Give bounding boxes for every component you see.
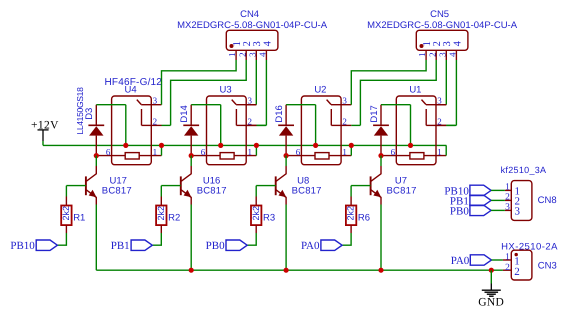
resistor R3 top stub <box>255 197 257 206</box>
transistor U17 collector <box>86 166 96 181</box>
junction collector node <box>189 153 194 158</box>
wire relay U4 pin 2 <box>162 124 171 126</box>
svg-text:3: 3 <box>342 95 347 105</box>
relay U4 body <box>112 96 152 165</box>
svg-text:2k2: 2k2 <box>346 206 356 221</box>
svg-text:2: 2 <box>505 263 510 273</box>
port PB10 at CN8 <box>470 185 491 195</box>
svg-text:3: 3 <box>153 95 158 105</box>
relay U1 switch lever pin 3 <box>422 100 426 105</box>
wire to ground <box>490 270 492 283</box>
connector CN5 pin 1 stub <box>425 50 427 60</box>
svg-text:PA0: PA0 <box>301 240 320 252</box>
relay U2 body <box>301 96 341 165</box>
resistor R6 body <box>346 206 356 226</box>
wire CN4 pin2 to relay pin2 <box>171 60 247 125</box>
svg-text:4: 4 <box>448 52 458 57</box>
wire base <box>66 185 86 187</box>
diode D17 cathode bar <box>373 124 389 126</box>
relay U1 body <box>396 96 436 165</box>
diode D17 cathode wire <box>380 105 382 126</box>
wire coil pin1 riser to +12V rail <box>255 145 257 155</box>
svg-text:PB1: PB1 <box>111 240 130 252</box>
wire CN5 pin1 to relay pin3 <box>351 60 426 105</box>
relay U2 pin 2 stub <box>341 124 351 126</box>
connector CN3 pin 2 stub <box>503 269 511 271</box>
wire collector to node <box>380 156 382 166</box>
junction collector node <box>378 153 383 158</box>
wire PB1 to CN8 pin 2 <box>491 199 505 201</box>
diode D16 body <box>279 126 293 135</box>
svg-text:6: 6 <box>201 147 206 157</box>
resistor R2 body <box>156 206 166 226</box>
connector CN4 body <box>226 30 278 50</box>
svg-text:3: 3 <box>247 52 257 57</box>
junction emitter on ground rail <box>189 268 194 273</box>
svg-text:U1: U1 <box>409 85 421 96</box>
resistor R2 bottom stub <box>160 225 162 233</box>
transistor U16 collector <box>181 166 191 181</box>
junction drive riser on +12V rail <box>123 143 128 148</box>
svg-text:D3: D3 <box>84 108 95 120</box>
wire emitter to ground rail <box>95 205 97 271</box>
wire relay pin3 stub extension <box>246 104 256 106</box>
wire relay U1 pin 2 <box>446 124 455 126</box>
wire resistor to input port <box>57 233 66 245</box>
svg-text:2k2: 2k2 <box>156 206 166 221</box>
connector CN5 pin 4 stub <box>455 50 457 60</box>
port PB1 <box>131 240 152 250</box>
diode D17 body <box>374 126 388 135</box>
wire diode cathode to drive riser <box>286 104 316 106</box>
wire collector to node <box>190 156 192 166</box>
diode D14 cathode wire <box>190 105 192 126</box>
svg-text:CN5: CN5 <box>430 9 449 20</box>
wire drive riser to +12V rail <box>315 105 317 146</box>
svg-text:BC817: BC817 <box>197 185 227 196</box>
svg-text:3: 3 <box>515 206 521 218</box>
svg-text:1: 1 <box>342 147 347 157</box>
relay U3 pin 3 stub <box>246 104 256 106</box>
connector CN3 pin 1 stub <box>503 259 511 261</box>
svg-text:6: 6 <box>296 147 301 157</box>
relay U3 switch lever pin 3 <box>232 100 236 105</box>
wire CN4 pin3 to relay pin3 <box>255 60 257 105</box>
connector CN8 pin 2 stub <box>505 199 511 201</box>
svg-text:R2: R2 <box>168 213 180 224</box>
junction drive riser on +12V rail <box>408 143 413 148</box>
transistor U7 base bar <box>370 176 372 195</box>
wire coil pin1 riser to +12V rail <box>350 145 352 155</box>
diode D3 anode wire <box>95 136 97 156</box>
connector CN5 pin 3 stub <box>445 50 447 60</box>
resistor R2 top stub <box>160 197 162 206</box>
transistor U16 emitter <box>181 190 191 205</box>
diode D3 cathode bar <box>88 124 104 126</box>
svg-text:2k2: 2k2 <box>251 206 261 221</box>
diode D16 anode wire <box>285 136 287 156</box>
wire base <box>256 185 276 187</box>
relay U2 pole pin 2 <box>330 109 332 125</box>
wire relay pin2 stub extension <box>436 124 446 126</box>
relay U3 pole pin 2 <box>235 109 237 125</box>
relay U4 pin 2 stub <box>151 124 161 126</box>
wire diode cathode to drive riser <box>191 104 221 106</box>
junction collector node <box>94 153 99 158</box>
wire relay pin2 stub extension <box>246 124 256 126</box>
svg-text:MX2EDGRC-5.08-GN01-04P-CU-A: MX2EDGRC-5.08-GN01-04P-CU-A <box>367 20 518 31</box>
port PB10 <box>36 240 57 250</box>
svg-text:D17: D17 <box>369 105 380 122</box>
resistor R1 top stub <box>65 197 67 206</box>
resistor R1 bottom stub <box>65 225 67 233</box>
svg-text:CN8: CN8 <box>538 195 557 206</box>
relay U4 pin 6 wire <box>96 155 125 157</box>
wire CN5 pin4 to relay pin2 <box>455 60 457 125</box>
connector CN4 pin 4 stub <box>265 50 267 60</box>
wire diode cathode to drive riser <box>96 104 126 106</box>
svg-text:3: 3 <box>505 203 510 213</box>
svg-text:PA0: PA0 <box>451 255 470 267</box>
connector CN4 pin 2 stub <box>245 50 247 60</box>
junction drive riser on +12V rail <box>218 143 223 148</box>
wire coil pin1 riser to +12V rail <box>445 145 447 155</box>
power +12V symbol <box>38 129 49 131</box>
resistor R6 bottom stub <box>350 225 352 233</box>
junction collector node <box>284 153 289 158</box>
svg-text:D14: D14 <box>179 105 190 122</box>
wire emitter to ground rail <box>380 205 382 271</box>
svg-text:PB10: PB10 <box>10 240 35 252</box>
relay U1 coil <box>410 153 424 159</box>
svg-text:1: 1 <box>437 147 442 157</box>
relay U2 switch lever pin 3 <box>327 100 331 105</box>
transistor U8 emitter arrow <box>279 190 287 198</box>
connector CN8 pin 3 stub <box>505 209 511 211</box>
svg-text:BC817: BC817 <box>102 185 132 196</box>
svg-text:PB0: PB0 <box>206 240 225 252</box>
relay U3 pin 6 wire <box>191 155 220 157</box>
wire drive riser to +12V rail <box>410 105 412 146</box>
port PA0 at CN3 <box>470 255 491 265</box>
junction coil riser on +12V rail <box>254 143 259 148</box>
relay U3 pin 1 wire <box>234 155 256 157</box>
wire emitter ground rail <box>96 269 503 271</box>
relay U3 pin 2 stub <box>246 124 256 126</box>
diode D16 cathode bar <box>278 124 294 126</box>
relay U1 pin 6 wire <box>381 155 410 157</box>
junction coil riser on +12V rail <box>159 143 164 148</box>
wire +12V rail <box>43 144 446 146</box>
svg-text:2: 2 <box>237 52 247 57</box>
wire emitter to ground rail <box>190 205 192 271</box>
svg-text:U3: U3 <box>220 85 232 96</box>
relay U4 coil <box>125 153 139 159</box>
connector CN5 pin 2 stub <box>435 50 437 60</box>
svg-text:3: 3 <box>437 52 447 57</box>
relay U1 pin 3 stub <box>436 104 446 106</box>
wire CN5 pin2 to relay pin2 <box>360 60 436 125</box>
transistor U17 base bar <box>85 176 87 195</box>
connector CN5 body <box>416 30 468 50</box>
svg-text:BC817: BC817 <box>292 185 322 196</box>
wire base <box>351 185 371 187</box>
junction coil riser on +12V rail <box>349 143 354 148</box>
connector CN8 body <box>511 181 532 221</box>
wire resistor to input port <box>152 233 161 245</box>
wire emitter to ground rail <box>285 205 287 271</box>
relay U1 pole pin 2 <box>425 109 427 125</box>
svg-text:PB0: PB0 <box>450 205 469 217</box>
svg-text:1: 1 <box>248 147 253 157</box>
svg-text:6: 6 <box>391 147 396 157</box>
transistor U7 emitter arrow <box>373 190 381 198</box>
diode D3 body <box>89 126 103 135</box>
transistor U16 emitter arrow <box>184 190 192 198</box>
resistor R1 body <box>61 206 71 226</box>
port PA0 <box>321 240 342 250</box>
connector CN5 pin 1 marker <box>420 44 424 48</box>
diode D3 cathode wire <box>95 105 97 126</box>
svg-text:3: 3 <box>437 95 442 105</box>
resistor R3 body <box>251 206 261 226</box>
svg-text:CN3: CN3 <box>538 260 557 271</box>
svg-text:GND: GND <box>478 296 504 308</box>
connector CN3 body <box>511 250 532 280</box>
svg-text:4: 4 <box>258 52 268 57</box>
wire resistor to input port <box>247 233 256 245</box>
port PB0 at CN8 <box>470 205 491 215</box>
wire CN4 pin1 to relay pin3 <box>162 60 237 105</box>
wire drive riser to +12V rail <box>125 105 127 146</box>
svg-text:2k2: 2k2 <box>61 206 71 221</box>
wire collector to node <box>95 156 97 166</box>
transistor U17 emitter arrow <box>89 190 97 198</box>
wire relay U2 pin 2 <box>351 124 360 126</box>
ground symbol <box>482 289 501 291</box>
svg-text:4: 4 <box>262 40 273 46</box>
transistor U7 collector <box>371 166 381 181</box>
wire coil pin1 riser to +12V rail <box>161 145 163 155</box>
svg-text:BC817: BC817 <box>387 185 417 196</box>
svg-text:R1: R1 <box>73 213 85 224</box>
wire drive riser to +12V rail <box>220 105 222 146</box>
wire CN5 pin3 to relay pin3 <box>445 60 447 105</box>
relay U3 body <box>207 96 247 165</box>
wire diode cathode to drive riser <box>381 104 411 106</box>
resistor R6 top stub <box>350 197 352 206</box>
svg-text:R3: R3 <box>263 213 275 224</box>
transistor U8 base bar <box>275 176 277 195</box>
relay U2 coil <box>315 153 329 159</box>
wire CN4 pin4 to relay pin2 <box>265 60 267 125</box>
wire relay U3 pin 2 <box>256 124 265 126</box>
svg-text:1: 1 <box>153 147 158 157</box>
relay U3 coil <box>220 153 234 159</box>
relay U2 pin 3 stub <box>341 104 351 106</box>
svg-text:1: 1 <box>417 52 427 57</box>
svg-text:U2: U2 <box>314 85 326 96</box>
svg-text:MX2EDGRC-5.08-GN01-04P-CU-A: MX2EDGRC-5.08-GN01-04P-CU-A <box>177 20 328 31</box>
wire base <box>161 185 181 187</box>
wire PA0 to CN3 pin 1 <box>492 259 503 261</box>
svg-text:1: 1 <box>227 52 237 57</box>
diode D16 cathode wire <box>285 105 287 126</box>
junction emitter on ground rail <box>378 268 383 273</box>
junction drive riser on +12V rail <box>313 143 318 148</box>
svg-text:D16: D16 <box>274 105 285 122</box>
relay U1 pin 2 stub <box>436 124 446 126</box>
svg-text:3: 3 <box>248 95 253 105</box>
svg-text:U4: U4 <box>125 85 137 96</box>
svg-text:R6: R6 <box>358 213 370 224</box>
relay U4 pole pin 2 <box>141 109 143 125</box>
svg-text:1: 1 <box>505 253 510 263</box>
svg-text:2: 2 <box>514 266 520 278</box>
svg-text:CN4: CN4 <box>240 9 259 20</box>
diode D17 anode wire <box>380 136 382 156</box>
svg-text:6: 6 <box>106 147 111 157</box>
port PB0 <box>226 240 247 250</box>
junction emitter on ground rail <box>284 268 289 273</box>
junction ground drop on rail <box>489 268 494 273</box>
wire collector to node <box>285 156 287 166</box>
port PB1 at CN8 <box>470 195 491 205</box>
diode D14 cathode bar <box>183 124 199 126</box>
svg-text:kf2510_3A: kf2510_3A <box>501 165 547 175</box>
wire PB10 to CN8 pin 1 <box>491 189 505 191</box>
transistor U17 emitter <box>86 190 96 205</box>
relay U2 pin 6 wire <box>286 155 315 157</box>
svg-text:2: 2 <box>153 117 158 127</box>
svg-text:2: 2 <box>342 117 347 127</box>
wire PB0 to CN8 pin 3 <box>491 209 505 211</box>
svg-text:2: 2 <box>427 52 437 57</box>
svg-text:1: 1 <box>505 183 510 193</box>
connector CN3 pin 1 marker <box>515 253 518 256</box>
relay U4 pin 3 stub <box>151 104 161 106</box>
wire resistor to input port <box>342 233 351 245</box>
diode D14 body <box>184 126 198 135</box>
svg-text:2: 2 <box>505 193 510 203</box>
relay U4 switch lever pin 3 <box>137 100 141 105</box>
relay U1 pin 1 wire <box>424 155 446 157</box>
transistor U7 emitter <box>371 190 381 205</box>
connector CN4 pin 3 stub <box>255 50 257 60</box>
relay U2 pin 1 wire <box>329 155 351 157</box>
resistor R3 bottom stub <box>255 225 257 233</box>
connector CN4 pin 1 marker <box>230 44 234 48</box>
connector CN8 pin 1 stub <box>505 189 511 191</box>
transistor U8 collector <box>276 166 286 181</box>
transistor U16 base bar <box>180 176 182 195</box>
svg-text:4: 4 <box>452 40 463 46</box>
transistor U8 emitter <box>276 190 286 205</box>
relay U4 pin 1 wire <box>139 155 161 157</box>
diode D14 anode wire <box>190 136 192 156</box>
wire relay pin3 stub extension <box>436 104 446 106</box>
connector CN4 pin 1 stub <box>235 50 237 60</box>
